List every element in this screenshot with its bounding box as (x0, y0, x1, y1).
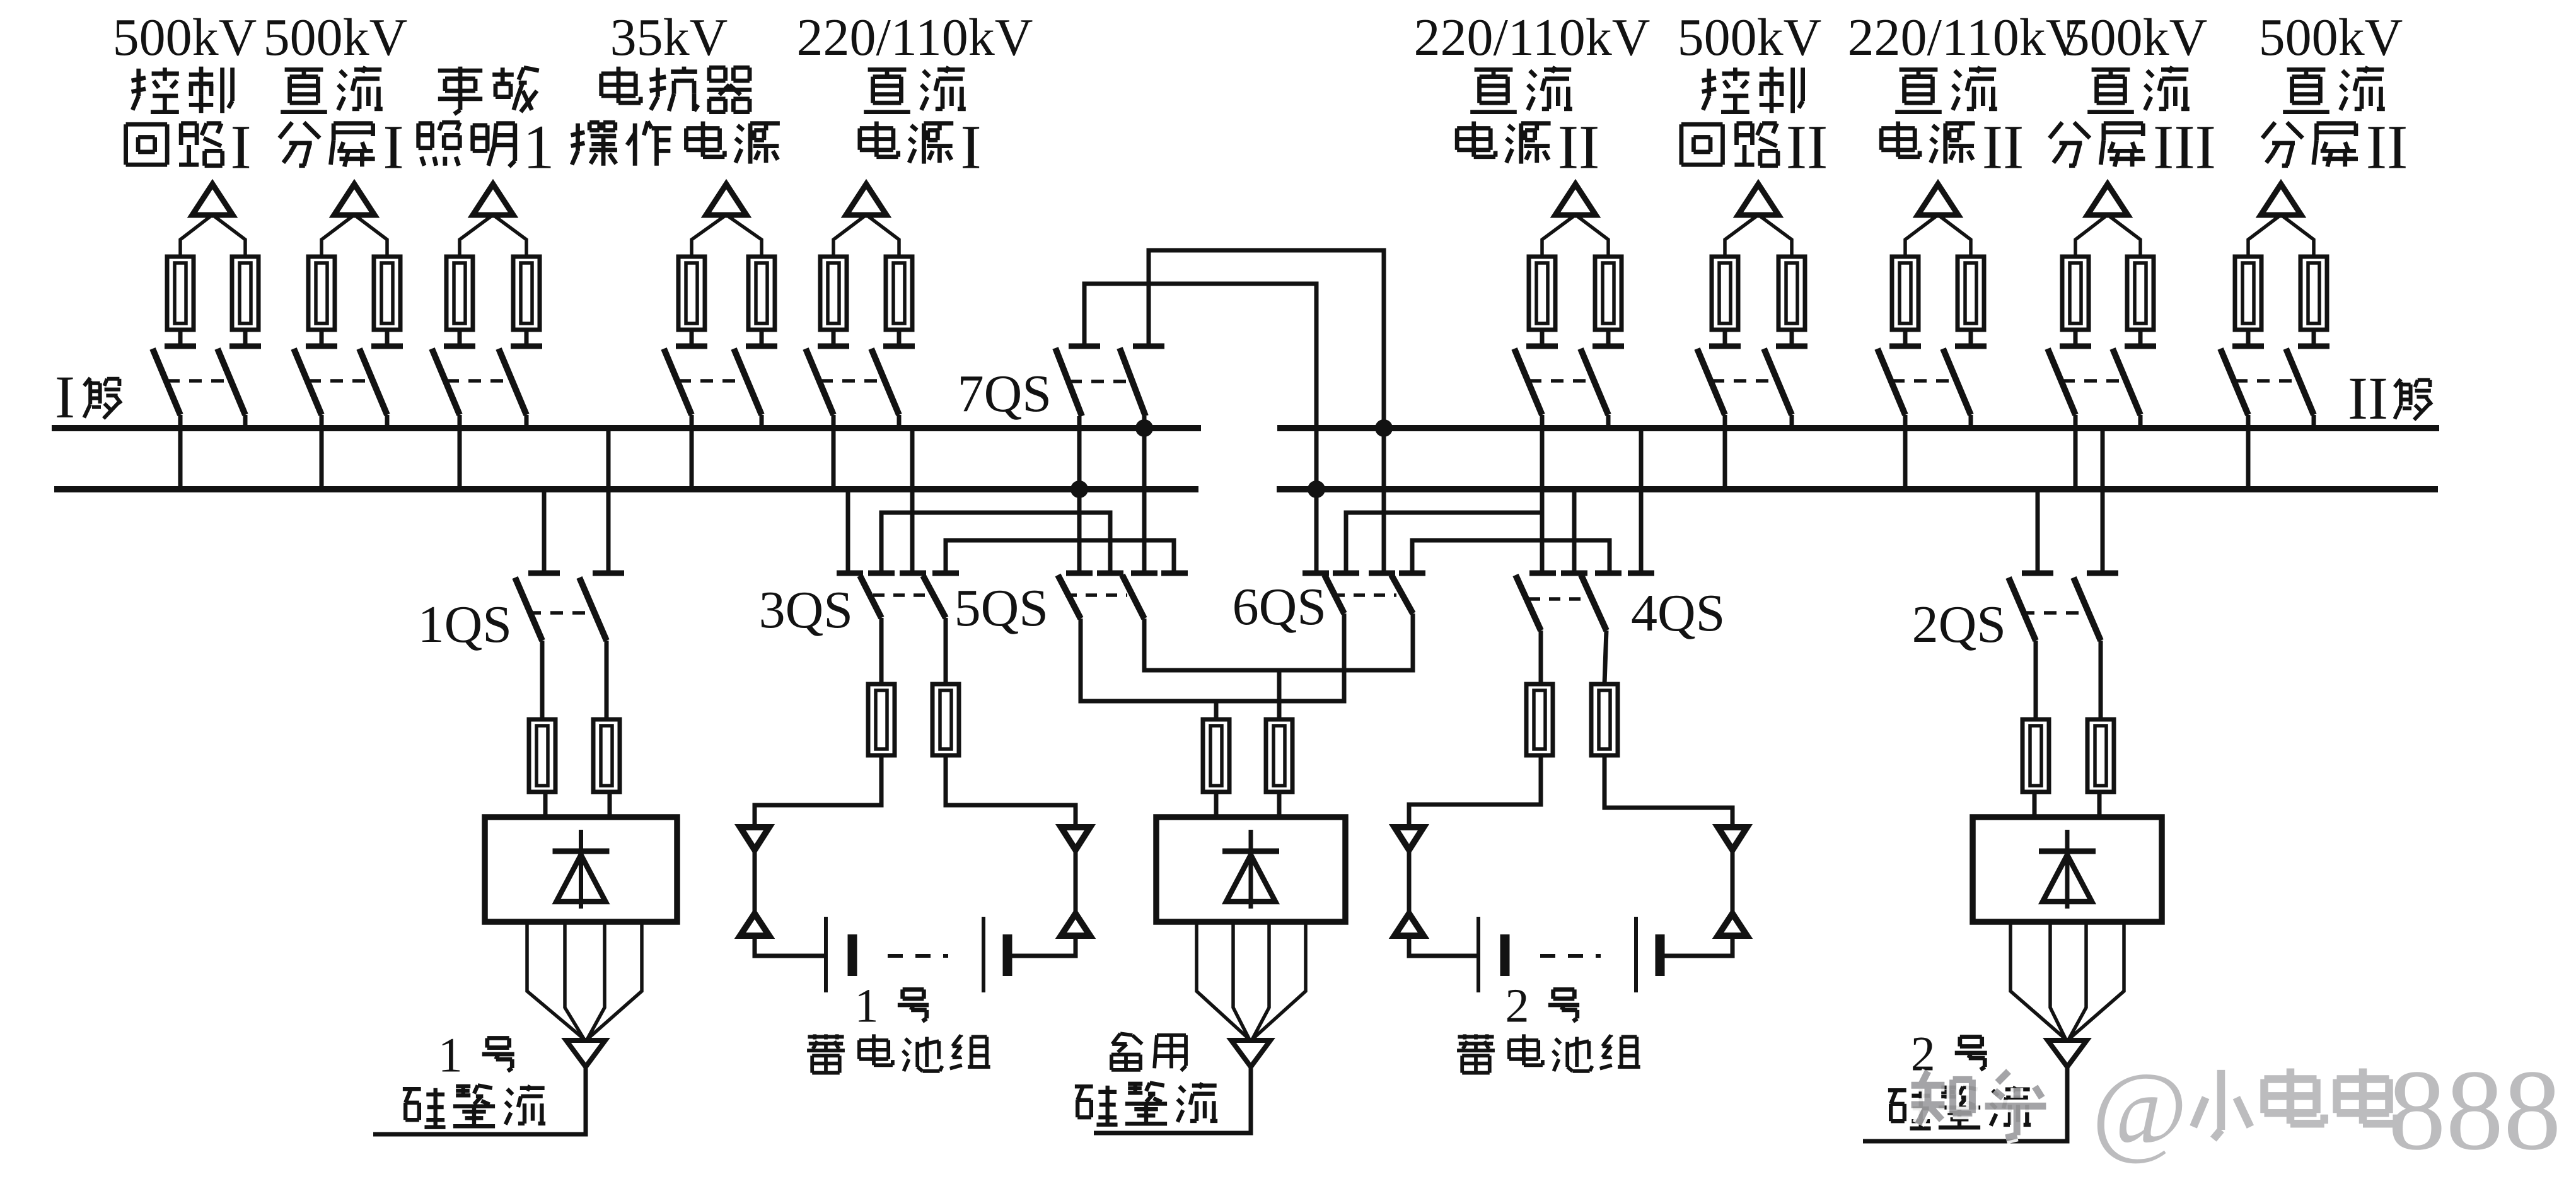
5QS contact bars pole2 (1131, 571, 1157, 576)
rectifier unit 2hao-guizhengliu diode symbol (2039, 830, 2096, 909)
battery 2 lead arrow up-left (1395, 914, 1424, 936)
feeder 8 fuse a (1892, 257, 1918, 346)
3QS output wires to battery fuses (879, 618, 884, 684)
feeder 5 pole wire to upper bus (897, 415, 902, 428)
rectifier unit 1hao-guizhengliu output wire and terminal line (373, 1067, 586, 1134)
svg-text:I: I (2368, 364, 2388, 432)
battery 2 lead arrow down-right (1718, 827, 1747, 850)
feeder 7 pole wire to lower bus (1723, 415, 1727, 489)
wire feeder 6 left pole down to 4QS (1540, 489, 1545, 573)
6QS blades (1325, 575, 1344, 613)
feeder 3 fuse b (513, 257, 540, 346)
battery 2 left leg wire (1407, 850, 1412, 914)
svg-text:888: 888 (2388, 1046, 2561, 1174)
5QS contact bars pole1 (1066, 571, 1093, 576)
battery 1 right leg wire (1074, 850, 1078, 914)
junction dot bottom bus II / tie jumper (1308, 480, 1325, 498)
spare rectifier fuse a (1203, 719, 1229, 792)
svg-text:I: I (2348, 364, 2368, 432)
6QS contact bars pole1 (1303, 571, 1329, 576)
svg-text:1: 1 (523, 112, 555, 182)
svg-text:II: II (1982, 112, 2024, 182)
feeder 1 fuse b (232, 257, 258, 346)
2QS output wires to fuses (2034, 641, 2038, 719)
feeder 5 disconnector switch (806, 346, 915, 415)
feeder 3 disconnector switch (432, 346, 542, 415)
svg-text:500kV: 500kV (113, 8, 257, 67)
svg-text:500kV: 500kV (2063, 8, 2208, 67)
spare rectifier fuse tap a (1214, 701, 1219, 719)
feeder 2 disconnector switch (294, 346, 403, 415)
DC bus section I positive (top, left) (52, 425, 1201, 431)
battery 1 lead arrow up-left (740, 914, 769, 936)
feeder 1 disconnector switch (153, 346, 261, 415)
feeder 2 fuse a (308, 257, 335, 346)
feeder 4 disconnector switch (664, 346, 777, 415)
svg-text:5QS: 5QS (954, 579, 1048, 637)
feeder 3 pole wire to lower bus (458, 415, 462, 489)
4QS contact bars pole1 (1529, 571, 1556, 576)
3QS feed pole2 from top bus I (910, 428, 915, 573)
transfer jumper J2 3QS-5QS (946, 540, 1174, 571)
svg-text:2: 2 (1506, 979, 1529, 1032)
svg-text:1: 1 (855, 979, 879, 1032)
2QS blades (2009, 578, 2036, 641)
battery 1 lead arrow down-right (1061, 827, 1090, 850)
feeder 9 pole wire to lower bus (2074, 415, 2078, 489)
6QS contact bars pole2 (1369, 571, 1395, 576)
7QS right blade wire to top bus I and 5QS (1142, 416, 1147, 573)
battery 1 lead arrow up-right (1061, 914, 1090, 936)
3QS contact bars pole2 (900, 571, 926, 576)
watermark @xiaodiandian888 (2092, 1046, 2561, 1174)
1QS feed from bottom bus I (542, 489, 547, 573)
feeder 10 fuse b (2300, 257, 2327, 346)
svg-text:@: @ (2092, 1051, 2188, 1166)
svg-text:220/110kV: 220/110kV (1848, 8, 2084, 67)
feeder 6 disconnector switch (1514, 346, 1624, 415)
battery 2 cells (1478, 917, 1660, 992)
transfer jumper J3 6QS-4QS (1346, 513, 1542, 571)
rectifier unit beiyong-guizhengliu diode symbol (1222, 830, 1279, 909)
feeder 1 fuse a (167, 257, 194, 346)
1QS fuse b (593, 719, 620, 792)
svg-text:500kV: 500kV (1678, 8, 1822, 67)
label guizhengliu (silicon rectifier) #1 (403, 1087, 421, 1091)
battery 1 lead arrow down-left (740, 827, 769, 850)
5QS pole2 output wire to spare rectifier net (1144, 613, 1413, 670)
1QS contact bars (528, 571, 560, 576)
rectifier unit 2hao-guizhengliu output fan (2010, 922, 2124, 1040)
feeder 9 pole wire to upper bus (2138, 415, 2143, 428)
feeder 2 pole wire to upper bus (385, 415, 390, 428)
DC bus section I negative (bottom, left) (54, 486, 1198, 492)
svg-text:500kV: 500kV (2259, 8, 2403, 67)
3QS battery fuse b (932, 684, 959, 755)
svg-text:I: I (230, 112, 251, 182)
2QS feed from bottom bus II (2036, 489, 2040, 573)
feeder 10 fuse a (2235, 257, 2261, 346)
7QS contact bars (1069, 344, 1100, 349)
feeder 4 pole wire to lower bus (690, 415, 694, 489)
svg-text:3QS: 3QS (759, 581, 853, 639)
feeder 9 disconnector switch (2048, 346, 2156, 415)
svg-text:I: I (55, 363, 75, 431)
battery 1 left leg wire (753, 850, 757, 914)
svg-text:2QS: 2QS (1912, 595, 2006, 654)
feeder 5 fuse b (886, 257, 912, 346)
1QS fuse a (529, 719, 555, 792)
3QS blades (860, 576, 881, 618)
feeder 5 fuse a (820, 257, 847, 346)
feeder 3 pole wire to upper bus (525, 415, 529, 428)
feeder 10 disconnector switch (2220, 346, 2329, 415)
label beiyong (spare) (1112, 1033, 1120, 1044)
rectifier unit beiyong-guizhengliu output arrow (1231, 1040, 1270, 1067)
transfer jumper J1 3QS-5QS (881, 513, 1110, 571)
transfer jumper J4 6QS-4QS (1412, 540, 1610, 571)
feeder 6 pole wire to lower bus (1540, 415, 1545, 489)
feeder 4 pole wire to upper bus (760, 415, 764, 428)
4QS battery fuse a (1526, 684, 1553, 755)
svg-text:1QS: 1QS (418, 595, 512, 654)
svg-text:6QS: 6QS (1233, 578, 1326, 636)
svg-text:II: II (1558, 112, 1600, 182)
battery 2 left leg to plates (1409, 936, 1478, 956)
feeder 5 pole wire to lower bus (832, 415, 836, 489)
svg-text:4QS: 4QS (1631, 584, 1725, 642)
rectifier unit 1hao-guizhengliu box (485, 817, 677, 922)
rectifier unit 1hao-guizhengliu output arrow (566, 1040, 605, 1067)
DC bus section II negative (bottom, right) (1277, 486, 2438, 492)
5QS blades (1058, 575, 1081, 619)
svg-text:220/110kV: 220/110kV (797, 8, 1033, 67)
battery 2 right leg wire (1731, 850, 1735, 914)
7QS upper transfer jumper to section II top bus and 6QS (1149, 250, 1384, 573)
1QS blades (515, 578, 542, 641)
battery 2 lead arrow up-right (1718, 914, 1747, 936)
4QS feed pole1b from bottom bus II (1572, 489, 1577, 573)
svg-text:II: II (2366, 112, 2408, 182)
feeder 1 pole wire to lower bus (178, 415, 183, 489)
feeder 2 pole wire to lower bus (320, 415, 324, 489)
svg-text:I: I (383, 112, 403, 182)
feeder 6 fuse b (1595, 257, 1622, 346)
spare rectifier fuse b (1266, 719, 1292, 792)
battery 2 right leg from plates (1660, 936, 1732, 956)
rectifier unit beiyong-guizhengliu output fan (1197, 922, 1306, 1040)
4QS contact bars pole2 (1595, 571, 1622, 576)
svg-text:I: I (960, 112, 981, 182)
3QS battery fuse a (868, 684, 895, 755)
spare rectifier fuse tap b (1277, 670, 1282, 719)
junction dot top bus II / tie jumper (1375, 419, 1393, 437)
rectifier unit 2hao-guizhengliu box (1973, 817, 2162, 922)
2QS fuse a (2022, 719, 2049, 792)
feeder 8 pole wire to lower bus (1903, 415, 1908, 489)
label guizhengliu (silicon rectifier) #2 (1888, 1088, 1906, 1092)
4QS output wires to battery fuses (1539, 631, 1543, 684)
svg-text:500kV: 500kV (264, 8, 408, 67)
battery 2 positive lead (1409, 755, 1541, 827)
feeder 3 fuse a (446, 257, 473, 346)
rectifier unit beiyong-guizhengliu output wire and terminal line (1094, 1067, 1251, 1133)
2QS fuse b (2087, 719, 2114, 792)
svg-text:III: III (2153, 112, 2216, 182)
rectifier unit 1hao-guizhengliu output fan (527, 922, 642, 1040)
5QS pole1 output wire to spare rectifier net (1081, 613, 1344, 701)
feeder 7 disconnector switch (1697, 346, 1807, 415)
feeder 7 fuse b (1778, 257, 1805, 346)
svg-text:220/110kV: 220/110kV (1414, 8, 1651, 67)
1QS output wires to fuses (540, 641, 545, 719)
feeder 9 fuse a (2062, 257, 2089, 346)
feeder 8 pole wire to upper bus (1969, 415, 1973, 428)
rectifier unit 1hao-guizhengliu input wires (543, 792, 548, 817)
1QS feed from top bus I (606, 428, 611, 573)
4QS feed pole2b from top bus II (1639, 428, 1644, 573)
feeder 4 fuse a (678, 257, 705, 346)
rectifier unit 2hao-guizhengliu output wire and terminal line (1863, 1067, 2067, 1141)
battery 1 right leg from plates (1007, 936, 1076, 956)
battery 1 positive lead (755, 755, 881, 827)
7QS left blade wire to bottom bus I and 5QS (1077, 416, 1082, 573)
svg-text:II: II (1786, 112, 1828, 182)
4QS battery fuse b (1591, 684, 1618, 755)
battery 2 negative lead (1604, 755, 1732, 827)
svg-text:35kV: 35kV (610, 8, 728, 67)
3QS contact bars pole1 (837, 571, 863, 576)
feeder 2 fuse b (374, 257, 400, 346)
feeder 1 pole wire to upper bus (243, 415, 248, 428)
rectifier unit 1hao-guizhengliu diode symbol (553, 830, 610, 909)
4QS blades (1516, 575, 1541, 631)
battery 1 left leg to plates (755, 936, 826, 956)
rectifier unit 2hao-guizhengliu output arrow (2048, 1040, 2087, 1067)
battery 2 lead arrow down-left (1395, 827, 1424, 850)
feeder 6 pole wire to upper bus (1606, 415, 1611, 428)
feeder 10 pole wire to upper bus (2312, 415, 2316, 428)
feeder 3 label shigu-zhaoming-1 (438, 69, 482, 73)
3QS feed pole1 from bottom bus I (846, 489, 850, 573)
7QS blades (1055, 348, 1082, 416)
feeder 6 fuse a (1529, 257, 1555, 346)
2QS contact bars (2022, 571, 2053, 576)
rectifier unit beiyong-guizhengliu input wires (1214, 792, 1219, 817)
label guizhengliu (silicon rectifier) spare (1075, 1084, 1093, 1088)
label xudianchizu (battery bank) 1 (824, 1034, 828, 1039)
label xudianchizu (battery bank) 2 (1474, 1034, 1478, 1039)
feeder 9 fuse b (2127, 257, 2154, 346)
rectifier unit 2hao-guizhengliu input wires (2033, 792, 2037, 817)
svg-text:7QS: 7QS (958, 364, 1052, 423)
DC bus section II positive (top, right) (1277, 425, 2439, 431)
feeder 7 pole wire to upper bus (1790, 415, 1794, 428)
rectifier unit beiyong-guizhengliu box (1156, 817, 1345, 922)
svg-text:1: 1 (438, 1027, 463, 1082)
feeder 8 disconnector switch (1877, 346, 1987, 415)
7QS lower transfer jumper to section II bottom bus and 6QS (1084, 284, 1316, 573)
feeder 7 fuse a (1712, 257, 1738, 346)
feeder 4 fuse b (748, 257, 775, 346)
feeder 10 pole wire to lower bus (2246, 415, 2251, 489)
2QS feed from top bus II (2101, 428, 2105, 573)
junction dot bottom bus I / 7QS left (1070, 480, 1088, 498)
battery 1 cells (826, 917, 1007, 992)
watermark zhihu logo with white halo (1912, 1071, 2046, 1138)
feeder 8 fuse b (1958, 257, 1984, 346)
junction dot top bus I / 7QS right (1135, 419, 1153, 437)
battery 1 negative lead (946, 755, 1076, 827)
